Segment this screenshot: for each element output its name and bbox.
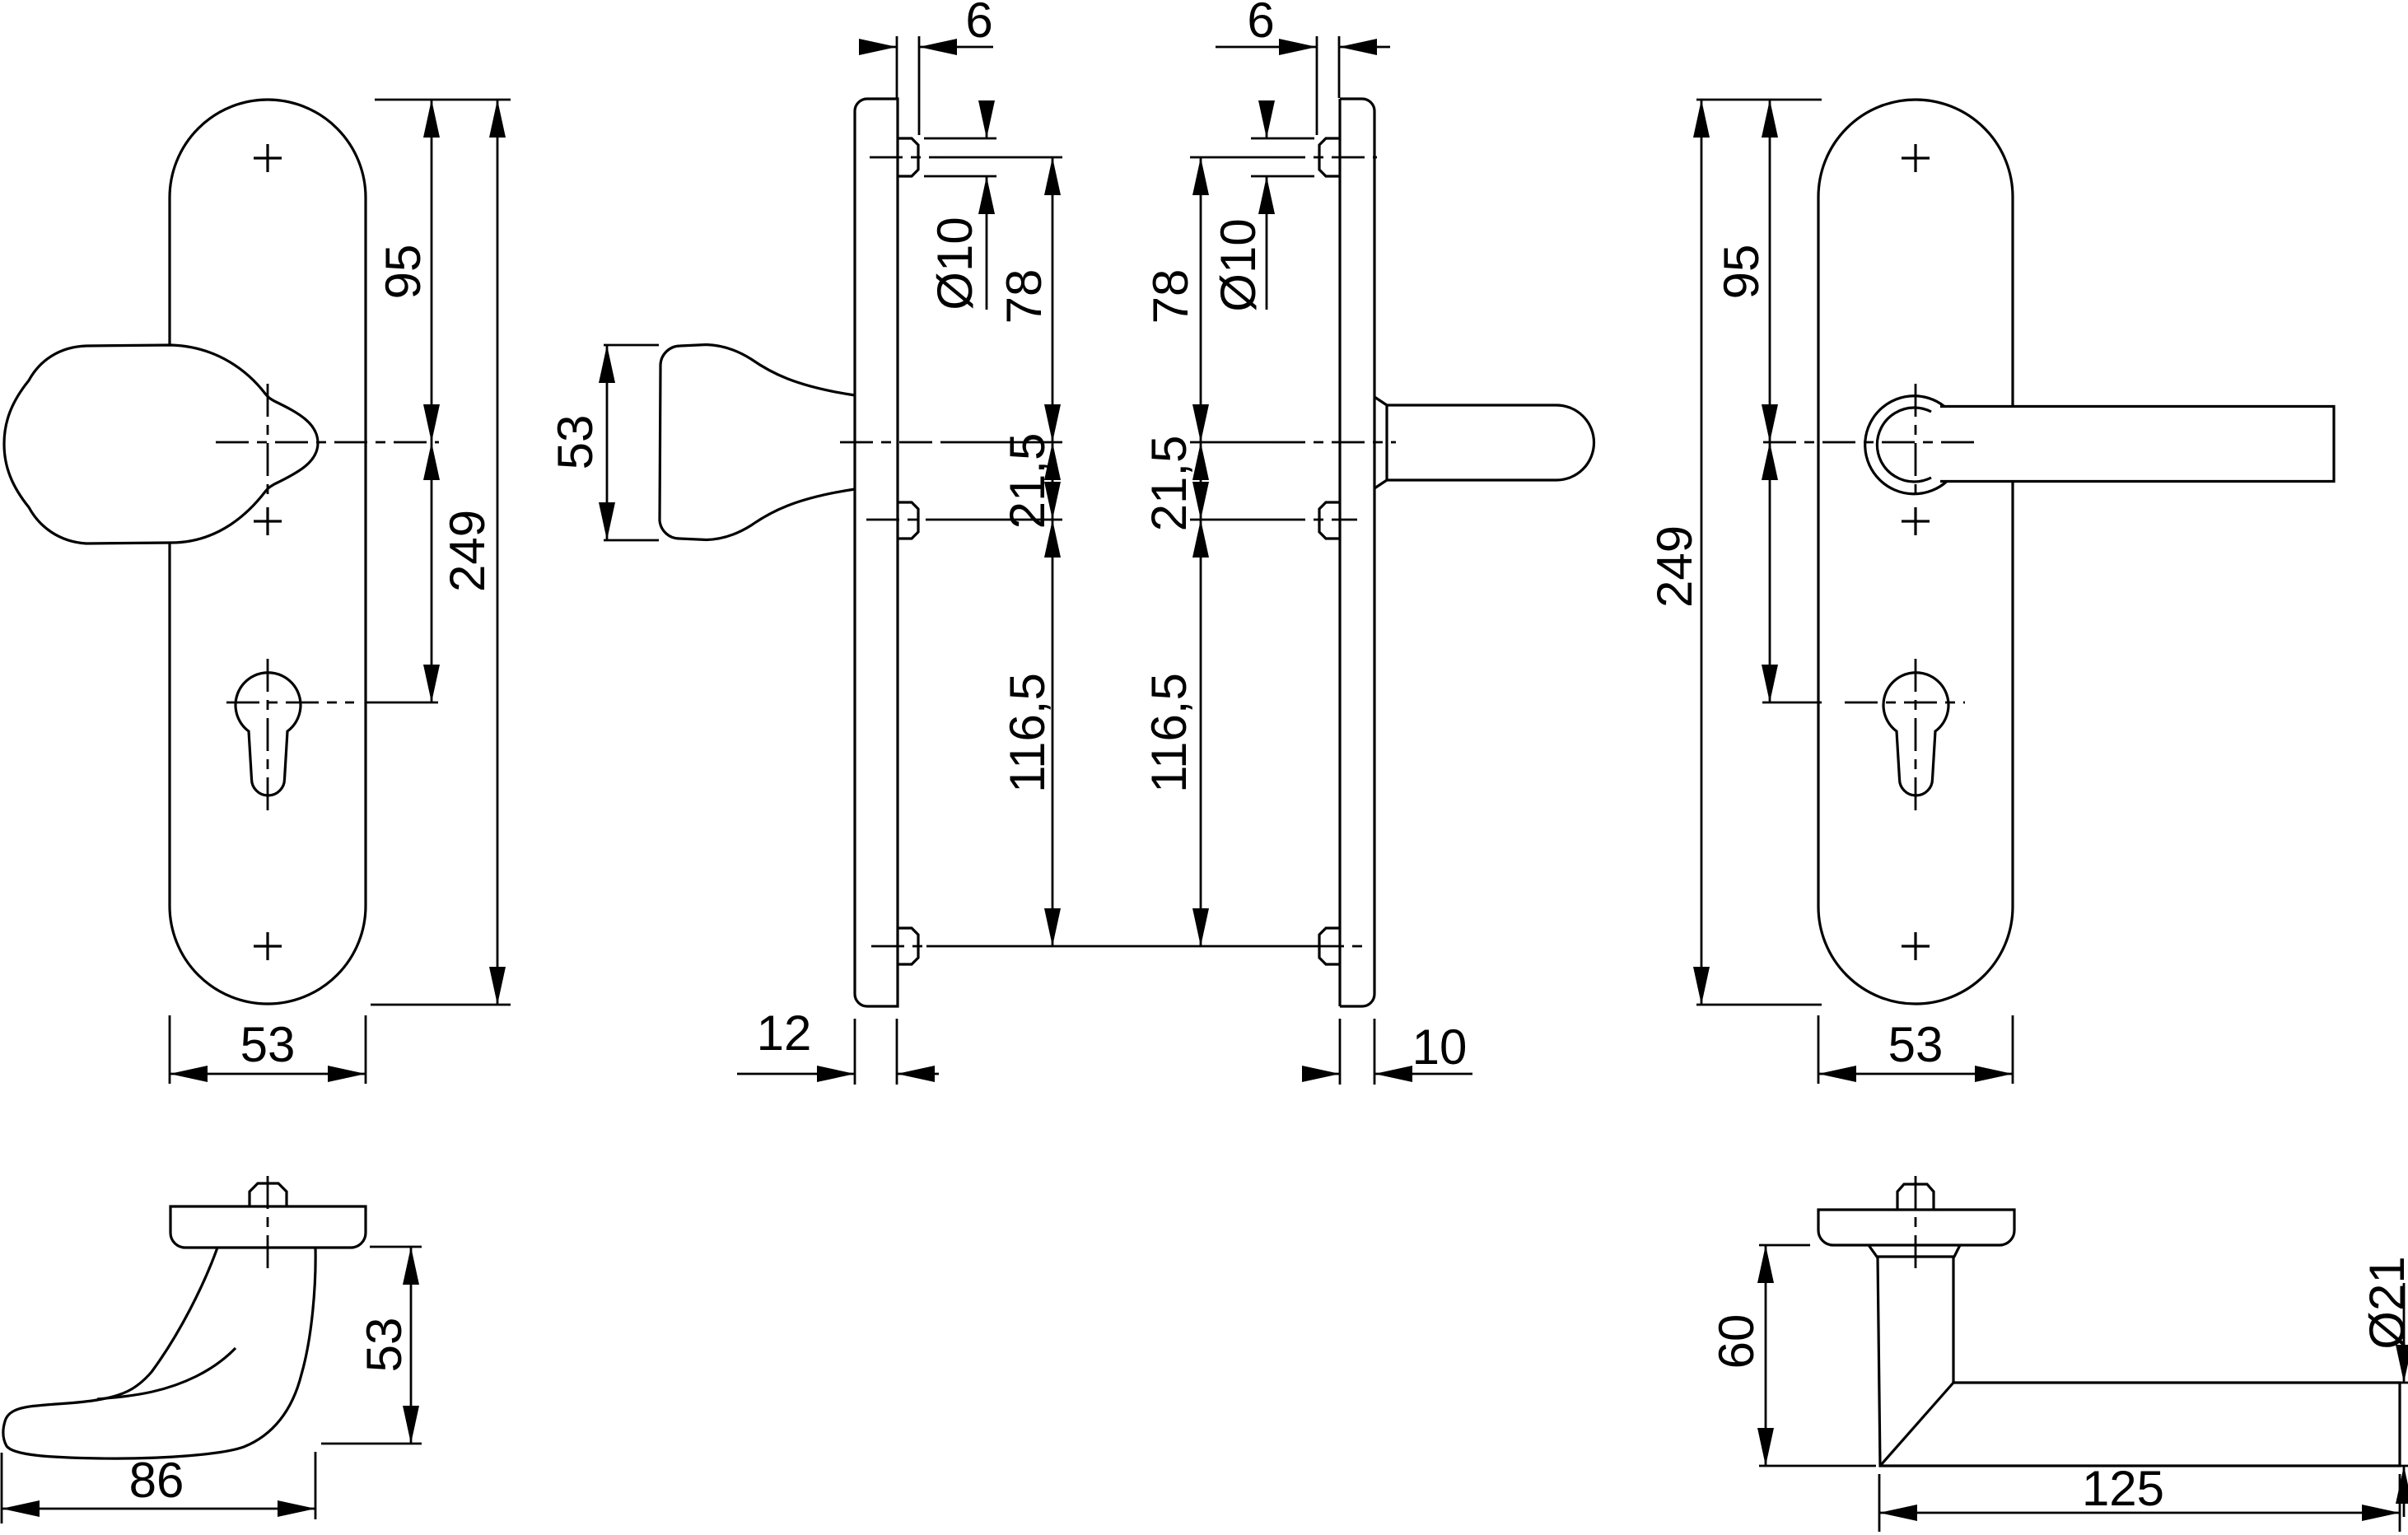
fixing bolt B4 top (view3) bbox=[1319, 138, 1340, 176]
knob K1 front outline bbox=[4, 345, 318, 544]
dimension O10 (bolt diameter, view3) bbox=[1211, 100, 1275, 312]
plate P2 outline (front view, lever side) bbox=[1818, 100, 2013, 1004]
bolt B3 centreline / extension bbox=[871, 945, 1363, 948]
extension line plate P1 top bbox=[375, 99, 511, 101]
lever axis centreline (view3) bbox=[1190, 441, 1396, 444]
lever L1 collar (side view) bbox=[1374, 397, 1387, 488]
bolt B5 centreline bbox=[1190, 519, 1357, 521]
dimension 249 (P2 overall height) bbox=[1647, 100, 1710, 1005]
svg-text:78: 78 bbox=[1143, 269, 1198, 324]
extension lines grip dia bbox=[2337, 1383, 2408, 1466]
dimension 95 (P1 top to handle axis) bbox=[376, 100, 440, 442]
lever profile centreline bbox=[1915, 1176, 1917, 1272]
svg-text:21,5: 21,5 bbox=[1000, 433, 1055, 530]
dimension 6 (bolt projection, view3) bbox=[1216, 0, 1390, 55]
screw mark cross top (plate P2) bbox=[1902, 144, 1930, 172]
lever hub outer circle bbox=[1865, 396, 1947, 494]
dimension handle axis to cylinder (P1) bbox=[423, 442, 440, 702]
screw mark cross top (plate P1) bbox=[254, 144, 282, 172]
svg-text:10: 10 bbox=[1412, 1019, 1468, 1075]
svg-text:125: 125 bbox=[2082, 1461, 2164, 1516]
dimension axis to cylinder (P2) bbox=[1762, 442, 1778, 702]
extension line plate P2 top bbox=[1696, 99, 1822, 101]
keyhole vertical centreline (P2) bbox=[1915, 659, 1917, 815]
screw mark cross below knob (plate P1) bbox=[254, 507, 282, 535]
extension lines lever length bbox=[1879, 1474, 2400, 1532]
dimension 249 (P1 overall height) bbox=[440, 100, 506, 1005]
svg-text:95: 95 bbox=[1714, 245, 1769, 300]
extension line keyhole axis (P1) bbox=[366, 702, 438, 704]
extension line plate P1 bottom bbox=[371, 1004, 511, 1006]
lever bend miter line bbox=[1880, 1383, 1953, 1466]
hub vertical centreline (P2) bbox=[1915, 384, 1917, 494]
dimension 53 (knob profile height) bbox=[357, 1247, 419, 1444]
dimension 10 (plate thickness, view3) bbox=[1302, 1019, 1472, 1082]
knob K1 vertical centreline bbox=[267, 384, 269, 494]
svg-text:Ø10: Ø10 bbox=[1211, 218, 1266, 311]
cylinder keyhole (plate P1) bbox=[236, 673, 301, 795]
lever L1 bar (front view) bbox=[1940, 407, 2334, 482]
lever rose flange (profile view) bbox=[1818, 1210, 2014, 1245]
lever spindle nub (profile view) bbox=[1897, 1184, 1934, 1210]
svg-text:86: 86 bbox=[129, 1453, 184, 1508]
svg-text:249: 249 bbox=[440, 510, 495, 592]
svg-text:78: 78 bbox=[996, 269, 1052, 324]
bolt B2 centreline bbox=[866, 519, 1062, 521]
svg-text:6: 6 bbox=[1247, 0, 1274, 48]
keyhole horizontal centreline (P1) bbox=[226, 702, 354, 704]
svg-text:60: 60 bbox=[1709, 1314, 1764, 1369]
dimension O10 (bolt diameter, view2) bbox=[927, 100, 995, 310]
svg-text:53: 53 bbox=[240, 1017, 296, 1072]
extension lines 6mm projection (view2) bbox=[897, 36, 919, 135]
svg-text:21,5: 21,5 bbox=[1141, 436, 1197, 532]
extension lines plate thickness (view2) bbox=[855, 1019, 897, 1085]
lever neck and bar outline (profile view) bbox=[1878, 1257, 2400, 1466]
knob spindle nub (profile view) bbox=[250, 1183, 287, 1206]
extension line plate P2 bottom bbox=[1696, 1004, 1822, 1006]
svg-text:116,5: 116,5 bbox=[1000, 673, 1055, 793]
dimension 116,5 (view3) bbox=[1141, 520, 1209, 946]
dimension 78 (view3) bbox=[1143, 157, 1209, 442]
extension lines width dim (P1) bbox=[170, 1015, 366, 1084]
dimension 53 (P1 width) bbox=[170, 1017, 366, 1082]
fixing bolt B5 middle (view3) bbox=[1319, 502, 1340, 539]
dimension O21 (grip diameter) bbox=[2359, 1256, 2408, 1517]
extension line keyhole axis (P2) bbox=[1762, 702, 1822, 704]
knob axis centreline (side view) bbox=[840, 441, 1062, 444]
keyhole vertical centreline (P1) bbox=[267, 659, 269, 815]
dimension 6 (bolt projection, view2) bbox=[859, 0, 993, 55]
lever axis centreline (P2) bbox=[1763, 441, 1978, 444]
dimension 21,5 (view3) bbox=[1141, 436, 1209, 532]
svg-text:116,5: 116,5 bbox=[1141, 673, 1197, 793]
svg-text:Ø21: Ø21 bbox=[2359, 1256, 2408, 1349]
knob body crease line bbox=[97, 1348, 236, 1399]
svg-text:95: 95 bbox=[376, 245, 431, 300]
extension lines bolt dia (view2) bbox=[924, 138, 996, 176]
knob K1 horizontal centreline bbox=[216, 441, 439, 444]
dimension 125 (lever length) bbox=[1879, 1461, 2400, 1521]
svg-text:53: 53 bbox=[1888, 1017, 1944, 1072]
dimension 95 (P2 top to axis) bbox=[1714, 100, 1778, 442]
extension lines width dim (P2) bbox=[1818, 1015, 2013, 1084]
lever L1 grip (side view) bbox=[1387, 405, 1594, 480]
dimension 21,5 (axis to bolt B2, view2) bbox=[1000, 433, 1061, 530]
svg-text:12: 12 bbox=[757, 1005, 812, 1061]
dimension 53 (knob height) bbox=[548, 345, 615, 540]
svg-text:6: 6 bbox=[965, 0, 992, 48]
svg-text:Ø10: Ø10 bbox=[927, 217, 982, 310]
fixing bolt B3 bottom (side view) bbox=[898, 928, 918, 964]
svg-text:53: 53 bbox=[548, 415, 603, 470]
svg-text:249: 249 bbox=[1647, 525, 1702, 608]
extension lines knob profile height bbox=[321, 1247, 422, 1444]
keyhole horizontal centreline (P2) bbox=[1845, 702, 1965, 704]
dimension 116,5 (bolt B2 to B3, view2) bbox=[1000, 520, 1061, 946]
dimension 12 (plate thickness, view2) bbox=[737, 1005, 939, 1082]
lever hub inner circle (rose) bbox=[1877, 408, 1931, 482]
screw mark cross bottom (plate P1) bbox=[254, 932, 282, 960]
knob flange (profile view) bbox=[170, 1206, 366, 1248]
plate P1 outline (front view, knob side) bbox=[170, 100, 366, 1004]
dimension 78 (bolt B1 to axis, view2) bbox=[996, 157, 1061, 442]
cylinder keyhole (plate P2) bbox=[1883, 673, 1948, 795]
extension lines bolt dia (view3) bbox=[1251, 138, 1314, 176]
fixing bolt B2 middle (side view) bbox=[898, 502, 918, 539]
dimension 60 (lever height) bbox=[1709, 1245, 1774, 1466]
bolt B4 centreline bbox=[1190, 156, 1377, 159]
dimension 53 (P2 width) bbox=[1818, 1017, 2013, 1082]
knob body outline (profile view) bbox=[3, 1248, 315, 1458]
screw mark cross below axis (plate P2) bbox=[1902, 507, 1930, 535]
fixing bolt B6 bottom (view3) bbox=[1319, 928, 1340, 964]
plate P1 side outline (12mm) bbox=[855, 99, 898, 1006]
extension lines 6mm projection (view3) bbox=[1317, 36, 1339, 135]
extension lines knob depth bbox=[2, 1452, 315, 1523]
extension lines lever height bbox=[1759, 1245, 1876, 1466]
dimension 86 (knob depth) bbox=[2, 1453, 315, 1517]
fixing bolt B1 top (side view) bbox=[898, 138, 918, 176]
plate P2 side outline (10mm) bbox=[1340, 99, 1374, 1006]
extension lines plate thickness (view3) bbox=[1340, 1019, 1374, 1085]
screw mark cross bottom (plate P2) bbox=[1902, 932, 1930, 960]
lever neck top step (profile view) bbox=[1869, 1245, 1960, 1257]
knob profile centreline bbox=[267, 1176, 269, 1272]
bolt B1 centreline bbox=[870, 156, 1062, 159]
knob K1 side profile bbox=[660, 345, 855, 540]
svg-text:53: 53 bbox=[357, 1318, 412, 1373]
extension lines knob height (side view) bbox=[604, 345, 659, 540]
